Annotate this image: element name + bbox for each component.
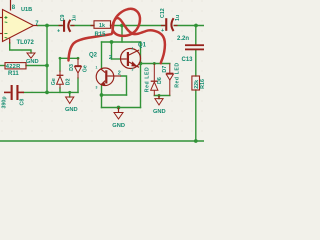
svg-text:R15: R15 [95,32,107,38]
svg-text:Red LED: Red LED [144,67,150,92]
svg-text:C8: C8 [20,99,26,106]
svg-text:+: + [57,29,60,35]
svg-text:GND: GND [112,123,125,129]
svg-text:Q1: Q1 [138,42,147,48]
svg-text:3: 3 [132,68,134,72]
svg-text:D6: D6 [157,77,163,84]
svg-text:C13: C13 [182,57,194,63]
svg-text:Ge: Ge [83,65,89,72]
svg-text:C9: C9 [60,14,66,21]
svg-text:390p: 390p [1,96,7,109]
svg-text:GND: GND [65,107,78,113]
svg-text:422R: 422R [6,64,21,70]
svg-text:22k: 22k [194,80,200,89]
svg-text:D7: D7 [162,66,168,73]
svg-text:D2: D2 [65,78,71,85]
svg-text:1k: 1k [99,23,105,29]
svg-text:1u: 1u [71,15,77,21]
svg-text:2: 2 [118,71,121,77]
svg-text:C12: C12 [160,8,166,18]
svg-text:1: 1 [96,66,98,70]
svg-text:GND: GND [26,59,39,65]
svg-text:GND: GND [153,109,166,115]
svg-text:TL072: TL072 [17,40,35,46]
svg-text:1: 1 [132,47,134,51]
svg-text:2: 2 [109,55,112,61]
svg-text:R16: R16 [200,79,204,89]
svg-text:R11: R11 [8,71,19,77]
svg-text:U1B: U1B [21,7,32,13]
svg-text:2.2n: 2.2n [177,36,189,42]
svg-text:Q2: Q2 [89,52,98,58]
svg-text:D3: D3 [69,64,75,71]
svg-text:+: + [161,28,164,34]
svg-text:1u: 1u [175,15,181,21]
svg-text:Ge: Ge [51,78,57,85]
svg-text:Red LED: Red LED [175,62,181,87]
svg-text:3: 3 [96,85,98,89]
